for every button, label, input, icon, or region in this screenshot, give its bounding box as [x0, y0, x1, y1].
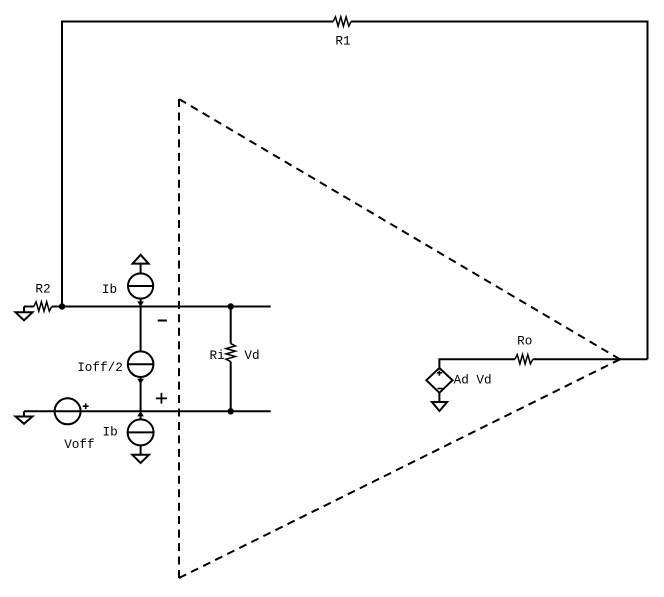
svg-text:R2: R2 — [35, 281, 50, 296]
svg-text:Ad Vd: Ad Vd — [454, 372, 492, 387]
svg-text:Ioff/2: Ioff/2 — [77, 360, 123, 375]
svg-text:Vd: Vd — [244, 348, 259, 363]
svg-text:R1: R1 — [335, 34, 350, 49]
svg-text:Ro: Ro — [517, 334, 532, 349]
svg-text:Ib: Ib — [102, 282, 117, 297]
svg-text:Voff: Voff — [64, 437, 94, 452]
svg-text:Ri: Ri — [210, 348, 225, 363]
svg-text:Ib: Ib — [103, 424, 118, 439]
